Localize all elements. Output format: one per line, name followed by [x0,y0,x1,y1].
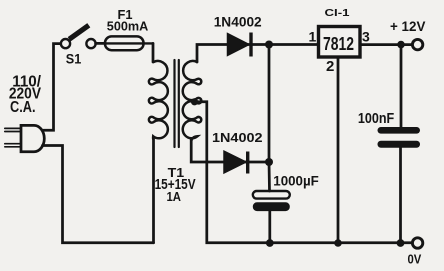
svg-text:CI-1: CI-1 [325,7,350,19]
wire C1 to 0V rail [268,211,271,243]
svg-text:7812: 7812 [323,33,354,54]
wire primary bottom to left rail [152,137,155,243]
svg-text:500mA: 500mA [107,19,149,34]
node after D1 [265,41,273,49]
svg-text:3: 3 [362,28,370,44]
svg-text:1N4002: 1N4002 [212,130,263,145]
node C2 on rail [397,239,405,247]
svg-text:1A: 1A [167,189,182,204]
svg-text:0V: 0V [408,251,422,266]
node output [397,41,405,49]
wire switch to fuse [96,42,105,45]
wire D1 node to D2 node to C1 [268,45,271,192]
wire D1 node to regulator input [269,43,318,46]
wire output node down to C2 [400,45,403,128]
0V terminal circle [412,238,422,248]
switch S1 [61,25,96,48]
wire secondary top to D1 [197,45,228,63]
transformer core [175,60,179,147]
label 110/220V C.A. [9,73,42,116]
center tap node [191,98,198,105]
transformer T1 primary winding [149,61,168,139]
svg-text:+ 12V: + 12V [390,18,426,34]
AC plug P1 [5,125,45,151]
wire secondary bottom to D2 anode line [191,140,224,163]
wire regulator output to +12V [360,43,412,46]
node pin2 on rail [334,239,342,247]
svg-text:S1: S1 [66,50,82,66]
diode D1 1N4002 [228,33,266,57]
+12V terminal circle [412,39,422,49]
capacitor C2 100nF bottom plate [378,141,421,148]
wire regulator pin2 to rail [337,58,340,243]
regulator CI-1 7812 box [319,27,361,58]
svg-text:1000µF: 1000µF [273,174,319,189]
node after D2 [265,158,273,166]
wire plug bottom to left rail [43,146,154,243]
svg-text:2: 2 [326,58,334,75]
transformer T1 secondary winding [183,61,202,139]
svg-text:100nF: 100nF [358,110,394,127]
wire center tap down to 0V rail [195,102,413,243]
node C1 on rail [266,239,274,247]
fuse F1 [105,36,153,50]
capacitor C2 100nF top plate [378,127,421,134]
capacitor C1 1000uF top plate [253,191,290,199]
wire C2 to 0V rail [399,148,402,243]
wire plug top to switch [44,44,61,131]
capacitor C1 1000uF bottom plate [253,202,290,211]
diode D2 1N4002 [224,151,265,173]
svg-text:1: 1 [309,28,317,44]
svg-text:C.A.: C.A. [10,99,36,116]
svg-text:1N4002: 1N4002 [214,14,262,30]
wire fuse to transformer primary [152,43,155,62]
